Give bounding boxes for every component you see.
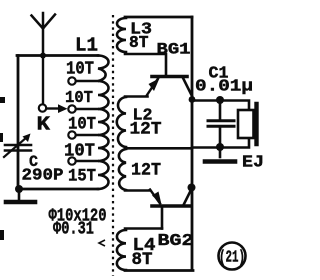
- svg-text:12T: 12T: [131, 161, 161, 181]
- svg-text:10T: 10T: [64, 142, 95, 162]
- svg-text:BG1: BG1: [157, 41, 191, 59]
- svg-text:12T: 12T: [130, 120, 162, 140]
- svg-text:290P: 290P: [22, 167, 64, 186]
- svg-text:L1: L1: [75, 35, 98, 57]
- svg-text:K: K: [37, 114, 51, 136]
- svg-text:Φ0.31: Φ0.31: [53, 219, 94, 240]
- svg-text:BG2: BG2: [158, 231, 194, 250]
- svg-text:10T: 10T: [66, 60, 94, 80]
- svg-text:8T: 8T: [132, 250, 153, 270]
- svg-text:10T: 10T: [65, 89, 93, 108]
- svg-text:0.01μ: 0.01μ: [195, 77, 253, 96]
- svg-text:(21): (21): [219, 249, 245, 268]
- svg-text:EJ: EJ: [242, 153, 264, 172]
- svg-text:15T: 15T: [68, 167, 96, 187]
- svg-text:8T: 8T: [129, 34, 149, 53]
- svg-text:10T: 10T: [68, 115, 96, 135]
